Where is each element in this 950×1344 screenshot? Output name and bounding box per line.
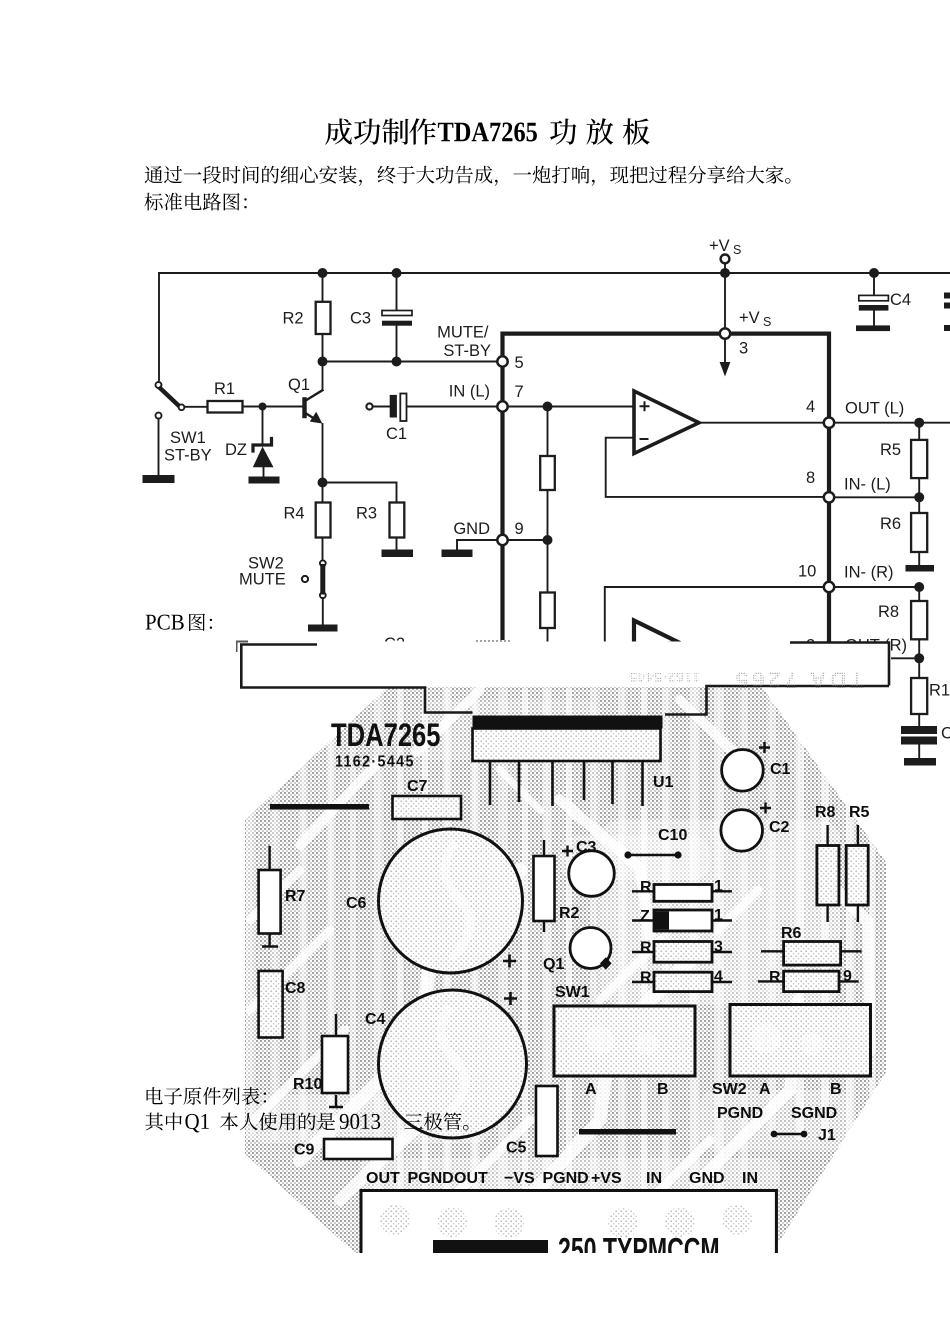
pin 10 [824, 582, 834, 592]
label 4 [806, 398, 815, 416]
wire pin10 to R8 [834, 586, 919, 588]
label R7 [285, 888, 306, 905]
wire top supply rail [159, 272, 950, 274]
node GND/divider [543, 535, 553, 545]
ground at R6 [906, 565, 935, 572]
scan corner artifact [237, 642, 249, 653]
label R5 pcb [849, 804, 870, 821]
label SW1 ST-BY [164, 429, 212, 465]
wire R1 to Q1 base [243, 406, 303, 408]
arrow supply into IC [720, 339, 731, 377]
PCB resistor R5 [846, 825, 868, 922]
pin 8 [824, 492, 834, 502]
PCB switch SW1 [554, 1006, 695, 1076]
label Q1 pcb [543, 956, 564, 973]
PCB resistor R2 [534, 840, 555, 932]
zener diode DZ [253, 439, 274, 477]
pin 4 [824, 418, 834, 428]
C6 inner trace [445, 842, 470, 958]
switch SW1 [156, 382, 185, 419]
label C3 pcb [576, 839, 597, 856]
label R6 pcb [781, 925, 802, 942]
PCB capacitor C7 [393, 796, 462, 819]
C4 plus mark [504, 992, 517, 1005]
capacitor C1 [366, 394, 497, 422]
label 9 [515, 520, 524, 538]
IC boundary thick lines [503, 334, 830, 661]
jumper J1 [771, 1131, 808, 1138]
label 2 [806, 637, 815, 655]
label R3 [356, 505, 377, 523]
U1 package bar [473, 716, 663, 729]
pin 3 [720, 328, 730, 338]
label Q1 [288, 376, 310, 394]
resistor R4 [316, 483, 331, 561]
pin 9 [497, 535, 507, 545]
connector pad shadows [380, 1205, 752, 1238]
wire OUT(R) [834, 657, 919, 659]
node C3 bottom [392, 357, 402, 367]
C6 plus mark [503, 955, 516, 968]
switch pad shadows [586, 1023, 823, 1055]
label R5 [880, 441, 901, 459]
capacitor C3 [382, 273, 412, 362]
PCB R3 row [632, 939, 732, 963]
label C10 [658, 827, 687, 844]
pin 5 [497, 356, 507, 366]
+Vs supply terminal [721, 255, 730, 330]
PCB trace bar bottom [579, 1129, 676, 1135]
resistor R6 [911, 497, 927, 565]
node C3 top [392, 268, 402, 278]
label +Vs pin 3 [739, 309, 771, 329]
wire emitter junction to R3 [323, 483, 397, 503]
node C4 top [869, 268, 879, 278]
label C2 pcb [769, 819, 790, 836]
C4 inner trace [441, 1006, 465, 1116]
resistor divider upper (input bias) [540, 407, 555, 541]
node OUT(R)/R11 [914, 653, 924, 663]
C1 plus mark [759, 742, 770, 753]
PCB transistor Q1 [570, 928, 612, 970]
switch SW2 [302, 560, 326, 598]
PCB capacitor C9 [324, 1139, 393, 1159]
ground at pin 9 [442, 540, 473, 557]
PCB switch SW2 [730, 1005, 871, 1077]
label R8 [878, 603, 899, 621]
label C7 [407, 778, 428, 795]
label GND [453, 520, 490, 538]
label C1 pcb [770, 761, 791, 778]
PCB capacitor C6 [379, 829, 523, 973]
PCB R9 row [758, 968, 859, 992]
C3 plus mark [562, 846, 573, 857]
wire mute/st-by to pin 5 [323, 361, 498, 363]
op-amp U1A [634, 391, 699, 454]
ground at SW2 [308, 625, 338, 632]
label R11 partial [929, 682, 950, 700]
PCB copper trace highlights [250, 690, 870, 1230]
PCB capacitor C8 [259, 971, 283, 1038]
label R8 pcb [815, 804, 836, 821]
label C4 [365, 1011, 386, 1028]
label SW1 pcb [555, 984, 590, 1001]
label OUT (R) [845, 637, 907, 655]
capacitor C4 [859, 273, 889, 325]
U1 package body [473, 729, 661, 762]
label 3 [739, 340, 748, 358]
ground at R3 [382, 550, 414, 558]
wire SW1 lower contact to ground [158, 419, 160, 475]
wire op-amp output to pin 4 [699, 422, 829, 424]
wire feedback right channel [605, 587, 829, 642]
label C1 [386, 425, 407, 443]
wire OUT(L) to edge [829, 422, 950, 424]
wire junction to DZ [262, 407, 264, 446]
label U1 [653, 774, 674, 791]
transistor Q1 [302, 390, 322, 423]
bottom partial silkscreen text [433, 1232, 720, 1269]
labels PGND SGND [717, 1105, 837, 1122]
node R2 top [318, 268, 328, 278]
PCB board dithered area [245, 687, 886, 1253]
resistor R5 [911, 423, 927, 498]
label C5 [506, 1140, 527, 1157]
PCB resistor R7 [259, 846, 281, 947]
node R5/R6 [914, 492, 924, 502]
vertical scan stripes [250, 688, 872, 1240]
PCB Z1 row [632, 907, 732, 931]
node R1/DZ junction [259, 403, 267, 411]
label MUTE/ST-BY [437, 324, 491, 361]
op-amp U1B partial [634, 621, 680, 646]
wire SW1 to R1 [184, 406, 207, 408]
resistor divider lower (right ch bias) [540, 540, 555, 642]
PCB R4 row [632, 969, 732, 992]
label R1 [214, 380, 235, 398]
ground at C4 [856, 325, 890, 331]
resistor R2 [316, 273, 331, 362]
PCB trace bar left [270, 804, 369, 810]
label R10 [293, 1076, 322, 1093]
label C9 [294, 1142, 315, 1159]
node supply rail junction [720, 268, 730, 278]
label C4 [890, 291, 911, 309]
resistor R8 [911, 587, 927, 658]
PCB resistor R8 [817, 825, 839, 922]
label +Vs top [709, 237, 741, 257]
ground at right cap [904, 758, 936, 766]
U1 heatsink tab [240, 642, 889, 715]
label 10 [798, 563, 816, 581]
PCB capacitor C2 [721, 810, 763, 852]
ground at DZ [249, 477, 280, 484]
label IN (L) [449, 383, 490, 401]
label R4 [284, 505, 305, 523]
label R6 [880, 515, 901, 533]
label 1162-5445 [335, 754, 415, 771]
label R2 pcb [559, 905, 580, 922]
PCB resistor R10 [322, 1014, 348, 1107]
label TDA7265 [331, 718, 441, 753]
label C partial [941, 725, 950, 743]
wire GND pin 9 [457, 539, 548, 541]
resistor R11 [911, 658, 927, 726]
C2 plus mark [760, 803, 771, 814]
labels SW2 A B [712, 1081, 842, 1098]
resistor R3 [390, 503, 405, 551]
faint mirrored silkscreen 1162-5445 [629, 667, 864, 693]
wire left drop to SW1 [158, 273, 160, 380]
node OUT(L)/R5 [914, 418, 924, 428]
PCB resistor R6 [761, 942, 862, 966]
label C2 partial [384, 635, 405, 653]
wire feedback loop left channel [606, 438, 829, 497]
label DZ [225, 441, 247, 459]
wire Q1 emitter down [322, 424, 324, 483]
PCB capacitor C5 [536, 1086, 558, 1156]
PCB capacitor C4 [379, 990, 527, 1138]
label C3 [350, 310, 371, 328]
PCB capacitor C3 [569, 851, 615, 897]
node emitter junction [318, 478, 328, 488]
ground at SW1 [143, 475, 175, 483]
label IN- (R) [844, 564, 893, 582]
PCB bottom pad labels [366, 1170, 758, 1187]
node R2 bottom / collector [318, 357, 328, 367]
resistor R1 [208, 401, 243, 413]
label R2 [283, 310, 304, 328]
wire IN(L) pin 7 to op-amp [503, 406, 635, 408]
label C6 [346, 895, 367, 912]
wire pin8 to R5/R6 junction [834, 496, 919, 498]
label 5 [515, 354, 524, 372]
PCB R1 row [632, 878, 732, 902]
wire Q1 collector up [322, 362, 324, 391]
scan noise patch above tab [474, 630, 510, 644]
wire SW2 to ground [322, 598, 324, 625]
pin 7 [497, 401, 507, 411]
label OUT (L) [845, 400, 904, 418]
partial capacitor at right page edge [944, 293, 950, 332]
PCB bottom connector [361, 1191, 776, 1254]
jumper C10 [624, 851, 681, 858]
C4 inner trace [441, 1006, 465, 1116]
label 8 [806, 469, 815, 487]
capacitor right channel bottom [901, 726, 937, 758]
label 7 [515, 383, 524, 401]
pin 2 [824, 653, 834, 663]
label C8 [285, 980, 306, 997]
PCB capacitor C1 [722, 750, 764, 792]
labels SW1 A B [585, 1081, 669, 1098]
lighter scan patches [250, 700, 850, 1192]
label SW2 MUTE [239, 555, 286, 589]
label J1 [818, 1127, 836, 1144]
label IN- (L) [844, 476, 891, 494]
node IN-(R)/R8 [914, 582, 924, 592]
U1 pins [490, 761, 643, 806]
node IN(L)/divider [543, 402, 553, 412]
